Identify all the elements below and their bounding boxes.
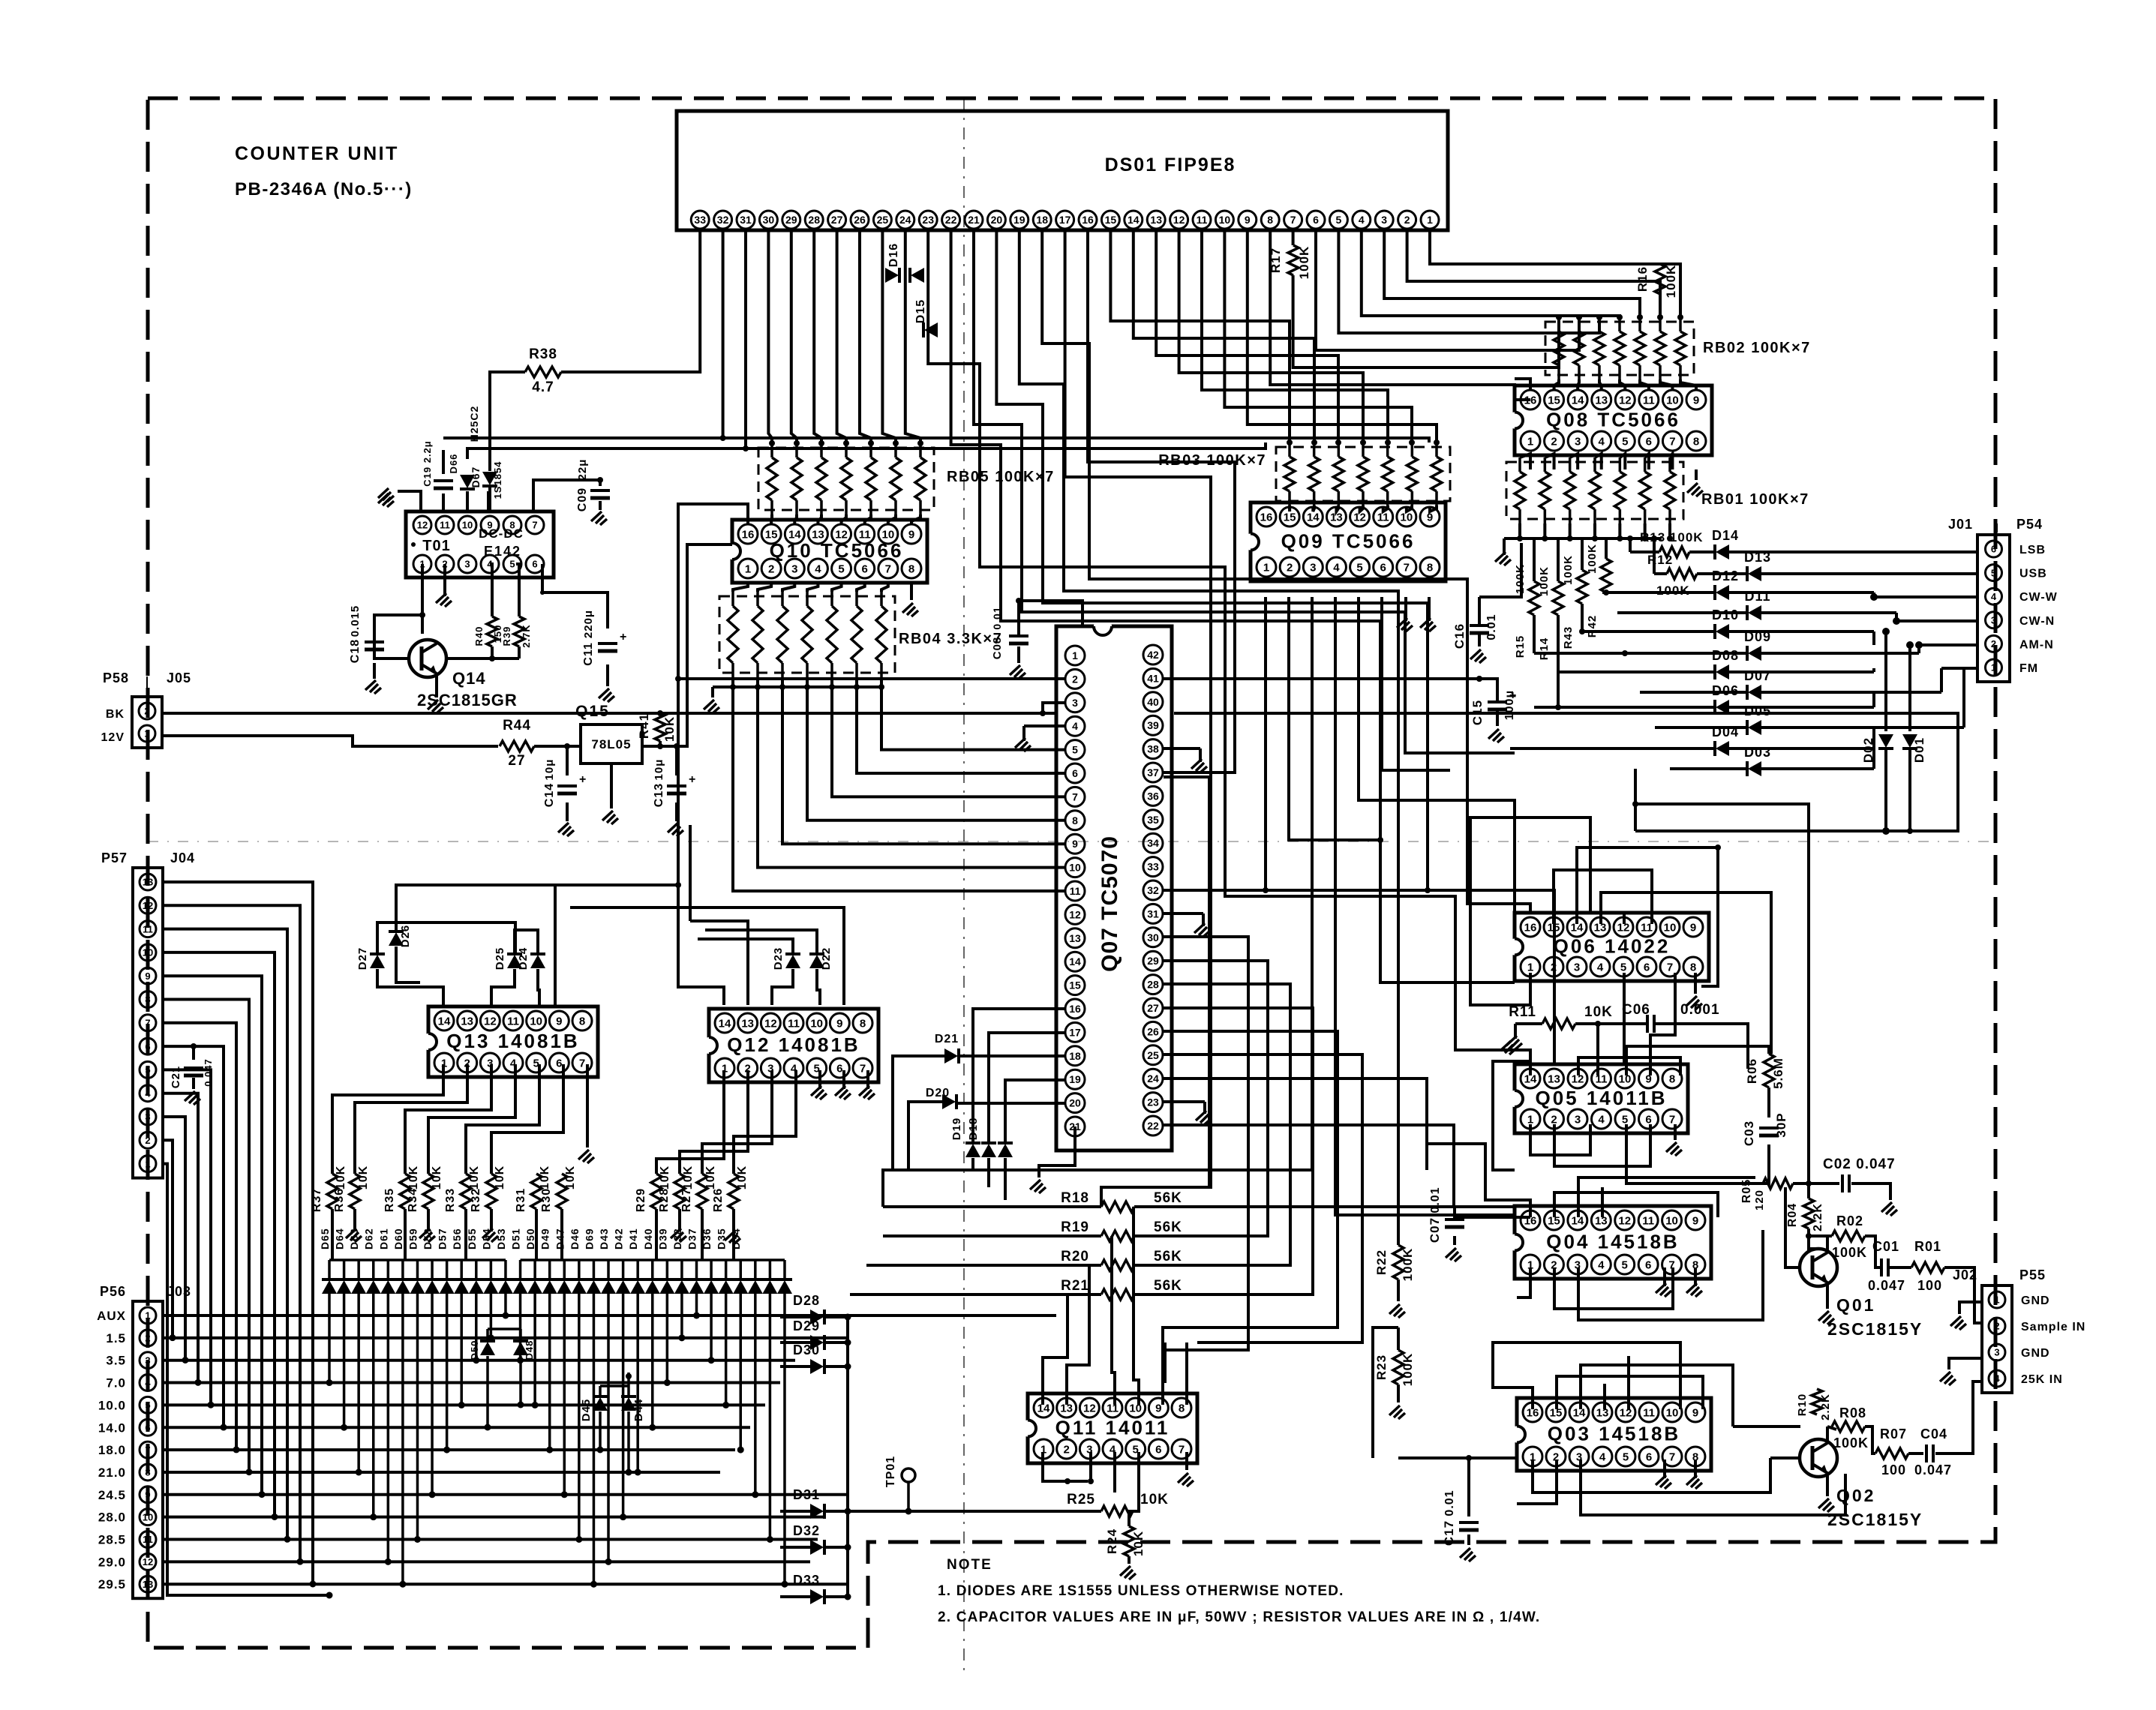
wire xyxy=(1578,379,1579,390)
svg-text:R27: R27 xyxy=(680,1188,693,1212)
diodes D50 D48 xyxy=(480,1342,495,1355)
wire xyxy=(951,230,1515,982)
wire xyxy=(1398,1456,1517,1459)
svg-text:100K: 100K xyxy=(1562,555,1575,585)
junction xyxy=(1617,535,1623,541)
svg-text:12: 12 xyxy=(143,1556,153,1567)
svg-text:D37: D37 xyxy=(686,1228,698,1249)
svg-text:9: 9 xyxy=(1692,1214,1698,1227)
ground xyxy=(1196,1111,1212,1124)
junction xyxy=(1425,887,1431,893)
svg-text:23: 23 xyxy=(1147,1096,1159,1108)
capacitor C03 30P xyxy=(1759,1126,1779,1129)
svg-text:6: 6 xyxy=(862,562,868,575)
connector P56 J03 xyxy=(133,1301,163,1598)
svg-text:R34: R34 xyxy=(407,1188,419,1212)
svg-text:7: 7 xyxy=(1669,1113,1675,1126)
wire xyxy=(1533,1458,1770,1492)
svg-text:R25: R25 xyxy=(1067,1492,1095,1507)
diode matrix column xyxy=(322,1280,337,1294)
svg-text:D27: D27 xyxy=(356,947,369,970)
svg-text:3: 3 xyxy=(1574,961,1580,973)
IC Q08 TC5066 xyxy=(1506,385,1712,455)
svg-text:D23: D23 xyxy=(772,947,785,970)
wire xyxy=(1164,1342,1167,1383)
svg-text:10: 10 xyxy=(1069,862,1081,874)
svg-text:0.047: 0.047 xyxy=(1868,1278,1905,1293)
wire xyxy=(599,480,602,486)
resistor network RB01 xyxy=(1506,457,1809,523)
svg-text:J04: J04 xyxy=(170,850,195,865)
svg-text:3: 3 xyxy=(145,1354,150,1366)
resistor R02 100K xyxy=(1832,1231,1865,1241)
svg-text:10K: 10K xyxy=(494,1165,506,1189)
resistor R44 27 xyxy=(500,741,534,751)
wire xyxy=(1164,1100,1205,1103)
svg-text:1: 1 xyxy=(145,1310,150,1321)
wire xyxy=(1134,984,1290,1265)
svg-text:220μ: 220μ xyxy=(582,610,595,638)
wire xyxy=(1164,890,1554,1065)
wire xyxy=(814,230,821,443)
svg-text:20: 20 xyxy=(991,214,1003,226)
diode matrix column xyxy=(719,1280,734,1294)
diode D20 xyxy=(942,1094,956,1109)
wire xyxy=(1179,230,1363,442)
svg-text:D24: D24 xyxy=(517,947,530,970)
junction xyxy=(458,1402,465,1408)
svg-text:D13: D13 xyxy=(1744,550,1771,565)
svg-text:5: 5 xyxy=(1336,214,1342,226)
wire xyxy=(1517,1267,1530,1297)
wire xyxy=(163,1516,825,1519)
svg-text:D16: D16 xyxy=(887,243,900,267)
svg-text:Q08 TC5066: Q08 TC5066 xyxy=(1546,409,1680,431)
svg-text:10: 10 xyxy=(810,1017,823,1030)
svg-text:56K: 56K xyxy=(1154,1249,1182,1264)
svg-text:1: 1 xyxy=(745,562,751,575)
svg-text:100K: 100K xyxy=(1832,1245,1867,1260)
wire xyxy=(1770,1456,1800,1459)
wire xyxy=(770,514,773,524)
wire xyxy=(1248,230,1437,442)
svg-text:13: 13 xyxy=(1596,1406,1609,1419)
svg-text:C08: C08 xyxy=(991,637,1004,660)
wire xyxy=(1043,1294,1067,1405)
junction xyxy=(385,1558,392,1565)
wire xyxy=(1110,230,1290,442)
wire xyxy=(541,591,544,594)
diode matrix column xyxy=(704,1280,719,1294)
svg-text:R44: R44 xyxy=(503,718,531,733)
svg-text:11: 11 xyxy=(1197,214,1208,226)
ground xyxy=(1397,618,1413,631)
svg-text:13: 13 xyxy=(1595,394,1608,406)
svg-text:11: 11 xyxy=(507,1015,519,1027)
junction xyxy=(1627,535,1633,541)
svg-text:13: 13 xyxy=(461,1015,473,1027)
resistor R20 56K xyxy=(1101,1260,1134,1270)
junction xyxy=(722,1402,729,1408)
wire xyxy=(888,514,896,524)
junction xyxy=(1637,314,1643,320)
wire xyxy=(1163,1031,1338,1396)
wire xyxy=(883,1234,1101,1237)
ground xyxy=(346,1228,362,1242)
svg-text:CW-N: CW-N xyxy=(2019,615,2055,628)
junction xyxy=(905,1508,912,1515)
svg-text:GND: GND xyxy=(2021,1347,2050,1360)
wire xyxy=(1407,230,1660,317)
wire xyxy=(163,1582,848,1585)
svg-text:7.0: 7.0 xyxy=(106,1376,126,1390)
junction xyxy=(191,1043,197,1049)
junction xyxy=(1466,1455,1472,1461)
svg-text:CW-W: CW-W xyxy=(2019,591,2058,604)
resistor R32 10K xyxy=(486,1174,497,1209)
wire xyxy=(163,1046,224,1427)
svg-text:7: 7 xyxy=(1669,435,1675,448)
svg-text:4: 4 xyxy=(1072,720,1078,732)
svg-text:16: 16 xyxy=(1069,1003,1081,1015)
svg-text:7: 7 xyxy=(1667,961,1673,973)
svg-text:D65: D65 xyxy=(319,1228,331,1249)
junction xyxy=(1906,641,1914,649)
wire xyxy=(772,969,793,1005)
svg-text:+: + xyxy=(689,773,696,786)
wire xyxy=(1039,1150,1075,1177)
junction xyxy=(575,1536,582,1543)
ground xyxy=(1030,1180,1046,1193)
svg-text:D46: D46 xyxy=(569,1228,581,1249)
svg-text:10: 10 xyxy=(1666,394,1679,406)
svg-text:29.0: 29.0 xyxy=(98,1555,126,1569)
svg-text:10K: 10K xyxy=(704,1165,717,1189)
svg-text:0.015: 0.015 xyxy=(349,605,362,637)
resistor R40 150 xyxy=(487,616,497,646)
wire xyxy=(1660,379,1672,390)
wire xyxy=(1809,1236,1818,1249)
svg-text:14: 14 xyxy=(1307,511,1320,523)
junction xyxy=(1016,598,1022,604)
svg-text:7: 7 xyxy=(1290,214,1296,226)
diode D45 xyxy=(593,1397,608,1411)
svg-text:D06: D06 xyxy=(1712,683,1739,698)
wire xyxy=(1164,1078,1427,1170)
svg-text:7: 7 xyxy=(885,562,891,575)
wire xyxy=(1482,1216,1530,1219)
svg-text:27: 27 xyxy=(508,753,525,769)
svg-text:D49: D49 xyxy=(539,1228,551,1249)
wire xyxy=(1156,230,1338,442)
junction xyxy=(1915,641,1923,649)
svg-text:9: 9 xyxy=(556,1015,562,1027)
junction xyxy=(1596,314,1602,320)
svg-text:20: 20 xyxy=(1069,1097,1081,1109)
svg-text:2: 2 xyxy=(1991,638,1996,649)
svg-text:14.0: 14.0 xyxy=(98,1420,126,1435)
wire xyxy=(656,1070,724,1174)
diode D13 xyxy=(1697,572,1747,575)
capacitor C02 0.047 xyxy=(1841,1174,1844,1192)
svg-text:D40: D40 xyxy=(642,1228,654,1249)
svg-text:1. DIODES ARE 1S1555 UNLESS: 1. DIODES ARE 1S1555 UNLESS OTHERWISE NO… xyxy=(938,1583,1344,1599)
capacitor C11 220u xyxy=(598,642,617,645)
junction xyxy=(605,1558,612,1565)
svg-text:16: 16 xyxy=(1524,921,1537,934)
ground xyxy=(378,488,394,502)
svg-text:12: 12 xyxy=(417,520,428,531)
wire xyxy=(1164,1054,1362,1342)
svg-text:10: 10 xyxy=(1666,1406,1679,1419)
svg-text:2: 2 xyxy=(1063,1443,1069,1456)
svg-text:4: 4 xyxy=(1333,561,1340,574)
wire xyxy=(1624,973,1626,1075)
wire xyxy=(1134,1264,1290,1267)
junction xyxy=(326,1379,333,1386)
svg-text:2.2K: 2.2K xyxy=(1812,1203,1824,1231)
svg-text:R32: R32 xyxy=(470,1188,482,1212)
svg-text:COUNTER UNIT: COUNTER UNIT xyxy=(235,143,399,164)
ground xyxy=(1488,729,1504,742)
diode matrix column xyxy=(395,1280,410,1294)
wire xyxy=(722,230,725,438)
svg-text:10K: 10K xyxy=(1131,1531,1146,1556)
junction xyxy=(1335,439,1341,445)
svg-text:31: 31 xyxy=(740,214,752,226)
svg-text:D32: D32 xyxy=(793,1523,820,1538)
junction xyxy=(818,440,824,446)
junction xyxy=(769,440,775,446)
svg-text:D19: D19 xyxy=(950,1117,963,1141)
wire xyxy=(817,969,820,1005)
svg-text:2SC1815Y: 2SC1815Y xyxy=(1827,1510,1923,1529)
svg-text:15: 15 xyxy=(1284,511,1296,523)
svg-text:36: 36 xyxy=(1147,790,1159,802)
wire xyxy=(881,687,1065,750)
svg-text:D29: D29 xyxy=(793,1318,820,1333)
junction xyxy=(1617,314,1623,320)
svg-text:11: 11 xyxy=(788,1017,800,1030)
connector J02 P55 xyxy=(1982,1285,2012,1393)
svg-text:15: 15 xyxy=(1548,394,1560,406)
svg-text:D48: D48 xyxy=(524,1340,535,1360)
wire xyxy=(487,491,490,511)
svg-text:11: 11 xyxy=(143,1534,153,1545)
wire xyxy=(163,1560,810,1563)
svg-text:+: + xyxy=(579,773,587,786)
junction xyxy=(597,477,603,483)
svg-text:D03: D03 xyxy=(1744,745,1771,760)
svg-text:5: 5 xyxy=(1622,1113,1628,1126)
svg-text:D41: D41 xyxy=(627,1228,639,1249)
wire xyxy=(1596,1024,1599,1075)
svg-text:3: 3 xyxy=(1381,214,1387,226)
wire xyxy=(733,583,748,592)
svg-text:2: 2 xyxy=(1994,1321,1999,1332)
svg-text:26: 26 xyxy=(1147,1025,1159,1037)
junction xyxy=(182,1357,189,1363)
svg-text:4: 4 xyxy=(1359,214,1365,226)
wire xyxy=(782,687,1065,844)
wire xyxy=(1164,937,1248,1170)
svg-text:12: 12 xyxy=(1618,1214,1631,1227)
diode matrix column xyxy=(440,1280,455,1294)
capacitor C08 0.01 xyxy=(1009,634,1028,637)
wire xyxy=(1134,1234,1268,1237)
wire xyxy=(959,1054,1065,1057)
wire xyxy=(1599,379,1602,390)
svg-text:D61: D61 xyxy=(377,1228,389,1249)
svg-text:C03: C03 xyxy=(1742,1120,1756,1146)
svg-text:13: 13 xyxy=(1150,214,1162,226)
wire xyxy=(162,736,498,746)
svg-text:10K: 10K xyxy=(431,1165,443,1189)
svg-text:39: 39 xyxy=(1147,719,1159,731)
junction xyxy=(370,1513,377,1520)
wire xyxy=(515,930,538,954)
svg-text:6: 6 xyxy=(1313,214,1319,226)
svg-text:10K: 10K xyxy=(736,1165,749,1189)
capacitor C13 10u xyxy=(667,784,686,787)
wire xyxy=(405,1064,491,1174)
ground xyxy=(1460,1548,1476,1561)
wire xyxy=(1430,505,1437,511)
wire xyxy=(1453,1236,1456,1245)
svg-text:56K: 56K xyxy=(1154,1278,1182,1294)
diode D03 xyxy=(1670,767,1747,770)
svg-text:5: 5 xyxy=(1072,744,1078,756)
svg-text:Q02: Q02 xyxy=(1836,1486,1875,1505)
diode matrix column xyxy=(586,1280,601,1294)
junction xyxy=(1579,628,1585,634)
wire bottom return xyxy=(1635,829,1910,832)
svg-text:R15: R15 xyxy=(1514,635,1527,658)
svg-text:18: 18 xyxy=(1036,214,1048,226)
wire xyxy=(1626,1124,1763,1183)
svg-text:D66: D66 xyxy=(448,454,459,474)
junction xyxy=(489,655,495,661)
wire xyxy=(1601,892,1771,1054)
ground xyxy=(1940,1372,1956,1385)
svg-text:7: 7 xyxy=(145,1444,150,1456)
resistor R41b 10K xyxy=(655,712,665,741)
wire xyxy=(1623,911,1626,924)
svg-text:5: 5 xyxy=(1622,435,1628,448)
wire xyxy=(1019,230,1398,1245)
junction xyxy=(1595,1021,1601,1027)
svg-text:42: 42 xyxy=(1147,649,1159,661)
junction xyxy=(170,1334,176,1341)
svg-text:10: 10 xyxy=(143,1511,153,1522)
wire xyxy=(1383,505,1388,511)
capacitor C04 0.047 xyxy=(1925,1444,1928,1462)
svg-text:D59: D59 xyxy=(407,1228,419,1249)
capacitor C01 0.047 xyxy=(1880,1258,1883,1276)
svg-text:R38: R38 xyxy=(529,346,557,362)
ground xyxy=(558,823,574,836)
wire xyxy=(908,1102,942,1170)
svg-text:2: 2 xyxy=(145,1333,150,1344)
wire xyxy=(1164,747,1200,750)
svg-text:3.5: 3.5 xyxy=(106,1354,126,1368)
resistor R24 10K xyxy=(1124,1526,1134,1556)
wire xyxy=(1645,454,1649,469)
svg-text:1: 1 xyxy=(1994,1294,1999,1306)
svg-text:P54: P54 xyxy=(2016,517,2043,532)
wire xyxy=(1575,1022,1647,1025)
resistor R08 100K xyxy=(1832,1421,1865,1432)
wire xyxy=(837,230,846,443)
svg-text:P56: P56 xyxy=(100,1284,126,1299)
resistor network RB05 xyxy=(758,443,1055,514)
junction xyxy=(502,1312,509,1319)
diode matrix column xyxy=(674,1280,689,1294)
diode D05 xyxy=(1655,726,1747,729)
junction xyxy=(882,1235,884,1237)
svg-text:6: 6 xyxy=(145,1422,150,1433)
wire xyxy=(1164,462,1235,772)
svg-text:0.01: 0.01 xyxy=(1429,1186,1442,1213)
svg-text:2: 2 xyxy=(768,562,774,575)
capacitor C06 0.001 xyxy=(1646,1015,1649,1033)
svg-text:10μ: 10μ xyxy=(543,759,556,781)
junction xyxy=(1870,593,1878,601)
wire xyxy=(1134,1008,1313,1294)
wire xyxy=(374,628,408,658)
junction xyxy=(1882,827,1890,835)
IC Q05 14011B xyxy=(1506,1064,1688,1133)
wire xyxy=(1826,1282,1829,1309)
diode matrix column xyxy=(542,1280,557,1294)
junction xyxy=(515,922,516,923)
wire xyxy=(163,1023,236,1450)
junction xyxy=(1455,1207,1456,1208)
svg-text:D62: D62 xyxy=(363,1228,375,1249)
junction xyxy=(657,743,663,749)
svg-text:8: 8 xyxy=(1427,561,1433,574)
svg-text:6: 6 xyxy=(836,1062,842,1075)
svg-text:120: 120 xyxy=(1753,1189,1766,1210)
svg-text:0.01: 0.01 xyxy=(1485,613,1498,640)
diode D29 xyxy=(810,1335,824,1350)
wire xyxy=(1554,379,1559,390)
svg-text:7: 7 xyxy=(532,520,537,531)
svg-text:24: 24 xyxy=(899,214,911,226)
wire xyxy=(599,501,602,510)
junction xyxy=(326,1592,333,1599)
svg-text:22: 22 xyxy=(945,214,957,226)
wire xyxy=(1496,709,1499,726)
svg-text:D12: D12 xyxy=(1712,568,1739,583)
wire xyxy=(1313,505,1314,511)
wire xyxy=(1113,1452,1116,1492)
wire xyxy=(163,929,287,1540)
svg-text:6: 6 xyxy=(1072,767,1078,779)
wire xyxy=(1959,1302,1982,1314)
wire xyxy=(1288,505,1291,511)
wire xyxy=(794,514,797,524)
diode D32 xyxy=(810,1540,824,1555)
wire xyxy=(1382,597,1450,770)
svg-text:P55: P55 xyxy=(2019,1267,2046,1282)
junction xyxy=(259,1491,266,1498)
wire xyxy=(1316,230,1579,350)
svg-text:10: 10 xyxy=(1219,214,1231,226)
svg-text:100K: 100K xyxy=(1833,1435,1869,1450)
svg-text:R07: R07 xyxy=(1880,1426,1907,1441)
svg-text:8: 8 xyxy=(145,994,150,1005)
